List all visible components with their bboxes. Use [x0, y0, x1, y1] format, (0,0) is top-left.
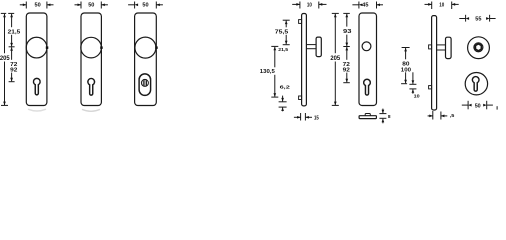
dimension 10 side view1 top [292, 2, 326, 9]
svg-text:55: 55 [475, 17, 482, 23]
svg-text:21,5: 21,5 [8, 30, 21, 36]
svg-text:8: 8 [388, 114, 391, 120]
svg-text:10: 10 [439, 2, 444, 8]
svg-text:75,5: 75,5 [275, 29, 289, 35]
dimension 8 cross-section [379, 109, 390, 124]
side view2 top tab [429, 45, 432, 49]
plate3 outline [135, 13, 157, 106]
svg-text:45: 45 [362, 2, 368, 8]
svg-text:205: 205 [0, 55, 10, 62]
side view2 bottom tab [429, 86, 432, 89]
plate3 knob center tick [155, 46, 158, 49]
dimension 10 side view2 top [425, 2, 459, 10]
svg-text:10: 10 [414, 94, 420, 100]
svg-text:205: 205 [330, 55, 340, 62]
plate1 knob center tick [46, 46, 49, 49]
dimension 72/92 left line [9, 47, 18, 81]
knob rosette inner [474, 43, 483, 52]
side view2 plate bar [432, 16, 437, 110]
plate1 knob circle [26, 37, 47, 58]
dimension 72/92 plate4 line [343, 47, 350, 83]
plate1 shadow smudge [28, 109, 46, 111]
side view2 knob cap [446, 37, 452, 58]
dimension 80/100 rosette line [401, 48, 411, 84]
dimension 50 plate1 top [20, 2, 54, 9]
side view1 knob cap [316, 37, 321, 57]
middle dimension 75,5 line [275, 20, 290, 45]
svg-text:50: 50 [475, 103, 481, 109]
plate4 keyhole PZ [364, 79, 371, 95]
dimension 205 plate4 line [330, 13, 340, 105]
dimension 15 side view1 bottom [294, 113, 319, 121]
side view1 bottom tab [299, 96, 302, 100]
plate2 knob center tick [100, 46, 103, 49]
plate1 outline [26, 13, 47, 106]
side view1 knob neck [306, 44, 316, 46]
plate2 outline [81, 13, 101, 106]
plate4 small hole [362, 42, 371, 51]
side view2 knob neck [437, 44, 446, 46]
knob rosette outer [468, 37, 490, 59]
dimension 55 knob rosette [459, 15, 495, 23]
key rosette outer [465, 73, 487, 95]
dimension 45 plate4 top [352, 2, 383, 9]
plate3 cover disc [141, 79, 148, 86]
plate4 cross-section base [359, 116, 376, 119]
plate2 keyhole PZ [88, 78, 95, 95]
dimension 205 left line [0, 13, 10, 105]
key rosette keyhole PZ [472, 77, 479, 92]
plate4 cross-section bump [365, 114, 370, 116]
dimension 1,5 side view2 bottom [428, 111, 455, 120]
middle mini dimension bottom [279, 96, 287, 112]
svg-text:50: 50 [35, 2, 41, 8]
svg-text:,5: ,5 [450, 113, 455, 119]
dimension 50 plate2 top [75, 2, 108, 9]
svg-text:15: 15 [314, 115, 319, 121]
plate1 keyhole PZ [33, 78, 40, 94]
svg-text:130,5: 130,5 [260, 69, 275, 75]
svg-text:21,5: 21,5 [278, 47, 288, 52]
svg-text:6,2: 6,2 [280, 85, 291, 90]
knob rosette hexagon [475, 44, 481, 51]
stray tick right [496, 106, 498, 109]
plate4 outline [359, 13, 377, 106]
plate2 knob circle [81, 37, 102, 58]
plate3 oval cylinder cover [139, 74, 151, 96]
mini dimension tab right side view [409, 72, 420, 99]
svg-text:50: 50 [88, 2, 94, 8]
svg-text:10: 10 [307, 2, 312, 8]
svg-text:50: 50 [142, 2, 148, 8]
side view1 top tab [299, 20, 302, 24]
dimension 50 key rosette [462, 101, 493, 110]
side view1 plate bar [302, 14, 307, 106]
dimension 50 plate3 top [128, 2, 163, 9]
middle dimension 130,5 line [260, 46, 279, 97]
dimension 21,5 left line [8, 13, 21, 46]
plate3 knob circle [135, 37, 156, 58]
svg-text:93: 93 [343, 29, 351, 35]
dimension 93 plate4 line [343, 13, 351, 46]
plate2 shadow smudge [82, 109, 100, 111]
